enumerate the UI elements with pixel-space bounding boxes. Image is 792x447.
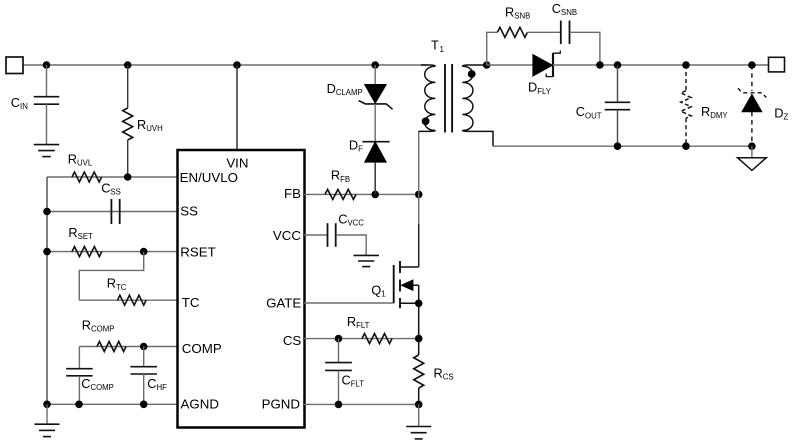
svg-text:COMP: COMP [182,341,222,356]
svg-text:VIN: VIN [226,156,248,171]
svg-text:VCC: VCC [273,228,301,243]
svg-text:SS: SS [180,204,198,219]
svg-text:T: T [431,38,439,53]
svg-text:1: 1 [440,45,445,54]
svg-text:CS: CS [283,333,302,348]
svg-text:TC: TC [182,295,200,310]
svg-text:EN/UVLO: EN/UVLO [180,170,238,185]
svg-text:AGND: AGND [181,396,219,411]
svg-text:FB: FB [284,186,301,201]
svg-text:GATE: GATE [266,296,301,311]
svg-text:RSET: RSET [180,245,215,260]
svg-text:PGND: PGND [262,397,300,412]
